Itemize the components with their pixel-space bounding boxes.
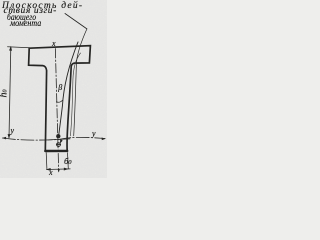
h0 extension line — [8, 47, 30, 48]
T-section outline — [29, 46, 91, 151]
b0 label — [64, 156, 72, 166]
centroid dot (filled) — [48, 139, 70, 140]
x axis bottom arrow — [58, 169, 60, 172]
y axis (dash-dot wobbly) — [3, 137, 106, 140]
axis labels — [52, 39, 56, 48]
b0 dimension line — [47, 168, 71, 171]
trace line with beta — [59, 42, 78, 134]
h0 dimension line — [9, 47, 11, 138]
leader from text — [65, 14, 87, 29]
y axis left arrow — [2, 137, 6, 140]
beta angle arc — [56, 100, 62, 102]
plane sliver line 1 — [70, 53, 80, 136]
text block — [2, 1, 83, 11]
stem bottom edge thick — [45, 150, 67, 153]
x axis centerline (dash-dot) — [55, 49, 58, 172]
y axis right arrow — [102, 138, 106, 141]
trace arrowhead at centroid circles — [60, 139, 63, 144]
h0 label rotated — [0, 89, 10, 97]
lower circle with bar — [57, 143, 61, 147]
plane sliver line 2 — [74, 29, 87, 136]
b0 extension lines — [46, 153, 68, 169]
